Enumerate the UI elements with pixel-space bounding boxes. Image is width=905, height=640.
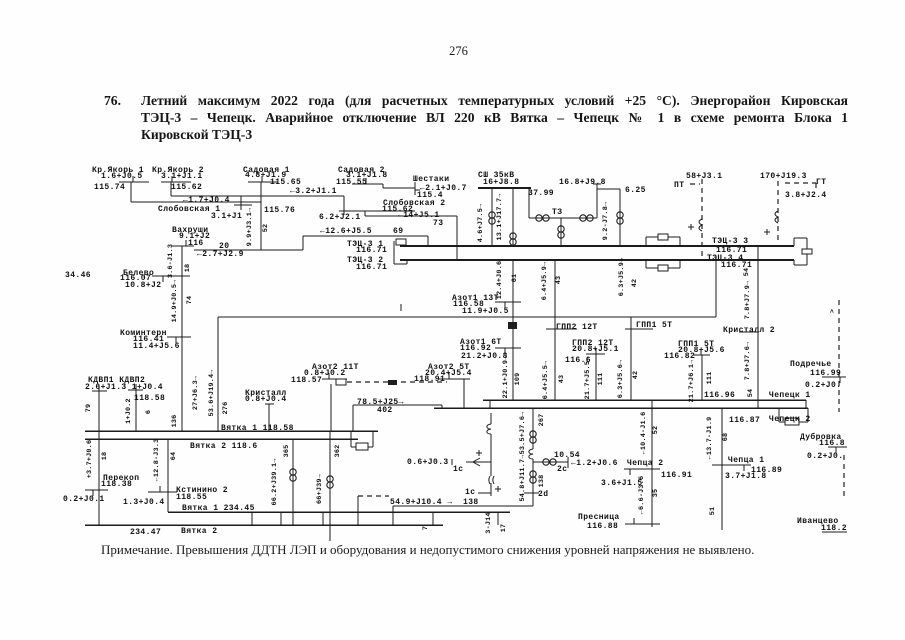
node tick <box>400 304 402 311</box>
wire <box>240 196 242 205</box>
node Коминтерн bar <box>167 336 191 338</box>
transformer <box>290 469 296 481</box>
svg-text:116.87: 116.87 <box>729 416 760 425</box>
svg-text:43: 43 <box>555 276 563 285</box>
svg-text:0.2+J0.: 0.2+J0. <box>805 381 841 390</box>
svg-text:←10.4-J1.6: ←10.4-J1.6 <box>640 412 648 455</box>
paragraph 76 heading <box>104 92 848 143</box>
svg-text:116.71: 116.71 <box>356 263 387 272</box>
wire <box>489 400 491 408</box>
node 1c tick <box>478 492 491 494</box>
node ГПП1-5Т tick <box>625 328 653 330</box>
node Перекоп bar <box>85 489 108 491</box>
svg-text:53.6+J19.4→: 53.6+J19.4→ <box>208 369 216 417</box>
wire <box>528 188 530 218</box>
wire <box>597 188 620 190</box>
node КДВП2 bar <box>128 389 143 391</box>
generator ПТ winding symbol <box>699 219 702 231</box>
svg-text:Вятка 1 118.58: Вятка 1 118.58 <box>221 424 294 433</box>
svg-text:7: 7 <box>422 526 430 530</box>
node Перекоп arrow <box>92 490 94 496</box>
bus coupler jump bottom <box>679 260 681 268</box>
svg-text:66+J39→: 66+J39→ <box>316 473 324 504</box>
generator ГТ dashed lead <box>777 181 779 244</box>
transformer <box>543 459 556 465</box>
svg-text:6.2+J2.1: 6.2+J2.1 <box>319 213 361 222</box>
node ГПП2-12Т arrow <box>595 348 597 354</box>
svg-text:111: 111 <box>597 373 605 386</box>
wire <box>463 379 465 408</box>
wire <box>130 182 132 202</box>
breaker Вятка loop <box>350 431 352 447</box>
wire <box>268 404 270 431</box>
bus left end-cap <box>404 244 406 246</box>
svg-text:0.2+J0.: 0.2+J0. <box>807 452 843 461</box>
wire <box>251 512 253 525</box>
svg-text:3-J14: 3-J14 <box>485 512 493 533</box>
svg-text:362: 362 <box>334 445 342 458</box>
wire <box>432 512 434 525</box>
svg-text:14.9+J0.5→: 14.9+J0.5→ <box>171 279 179 323</box>
wire <box>560 218 562 246</box>
node Азот2-11Т arrow <box>328 373 330 379</box>
svg-text:138: 138 <box>538 475 546 488</box>
node Пресница bar <box>625 523 660 525</box>
svg-text:118.58: 118.58 <box>134 394 165 403</box>
svg-text:←1.2+J0.6: ←1.2+J0.6 <box>571 459 618 468</box>
node Кристалл-2 bar <box>739 331 759 333</box>
svg-text:116.96: 116.96 <box>704 391 735 400</box>
node Белево bar <box>152 275 190 277</box>
wire trunk <box>181 246 183 431</box>
svg-text:402: 402 <box>377 406 393 415</box>
svg-text:66.2+J39.1→: 66.2+J39.1→ <box>271 458 279 506</box>
branch 1.2+J0.6 <box>533 461 568 463</box>
svg-text:34.46: 34.46 <box>65 271 91 280</box>
svg-text:←13.7-J1.9: ←13.7-J1.9 <box>706 417 714 460</box>
wire <box>98 391 100 525</box>
svg-text:116.71: 116.71 <box>356 246 387 255</box>
svg-text:118.91: 118.91 <box>414 375 445 384</box>
svg-text:Кристалл 2: Кристалл 2 <box>723 326 775 335</box>
node Азот2-5Т bar <box>439 378 470 380</box>
node ГПП1-5Т arrow <box>700 349 702 355</box>
svg-text:42: 42 <box>631 279 639 288</box>
svg-text:35: 35 <box>652 489 660 498</box>
bus left end-cap <box>406 259 408 264</box>
svg-text:9.2-J7.8→: 9.2-J7.8→ <box>602 201 610 240</box>
breaker Чепецк-2 loop <box>779 421 785 423</box>
node ГПП1-5Т bar <box>693 354 710 356</box>
node Кр.Якорь-1 bar <box>119 181 149 183</box>
wire <box>383 187 415 189</box>
svg-text:0.8+J0.4: 0.8+J0.4 <box>245 395 287 404</box>
wire <box>329 431 331 541</box>
svg-text:365: 365 <box>283 445 291 458</box>
bus 110kV Чепецк-1 <box>483 399 806 401</box>
svg-text:116.91: 116.91 <box>661 471 692 480</box>
svg-text:21.2+J0.8: 21.2+J0.8 <box>461 352 508 361</box>
svg-text:118.57: 118.57 <box>291 376 322 385</box>
node Слобовская-1 arrow <box>240 205 242 210</box>
svg-text:276: 276 <box>222 402 230 415</box>
node Кристалл arrow <box>265 403 274 405</box>
wire <box>343 196 345 211</box>
breaker coupler bottom <box>658 265 668 271</box>
svg-text:18: 18 <box>101 452 109 461</box>
bus 110kV Чепецк-2 <box>434 407 808 409</box>
wire <box>131 201 261 203</box>
bus Вятка 220kV <box>168 511 510 513</box>
bus left end-cap <box>393 241 395 264</box>
bus left end-cap <box>394 263 407 265</box>
wire <box>512 188 514 246</box>
breaker Вятка-2 <box>356 443 368 450</box>
svg-text:9.9+J3.1→: 9.9+J3.1→ <box>246 207 254 246</box>
node Кстинино bar <box>148 491 177 493</box>
svg-text:3.1+J1.1: 3.1+J1.1 <box>161 172 203 181</box>
svg-text:22.1+J0.9→: 22.1+J0.9→ <box>502 355 510 399</box>
wire <box>596 184 598 218</box>
svg-text:4.6+J7.5→: 4.6+J7.5→ <box>477 203 485 242</box>
svg-text:118.55: 118.55 <box>176 493 207 502</box>
svg-text:ТЗ: ТЗ <box>552 208 562 217</box>
node tick <box>593 183 601 185</box>
node Азот2-5Т arrow <box>448 373 450 379</box>
svg-text:6.3+J5.9→: 6.3+J5.9→ <box>618 257 626 296</box>
bus Вятка-1 110kV <box>85 430 378 432</box>
node Слобовская-1 bar <box>234 204 252 206</box>
node Коминтерн arrow <box>175 337 177 343</box>
svg-text:3.6-J1.3: 3.6-J1.3 <box>167 244 175 278</box>
breaker coupler top <box>658 234 668 240</box>
svg-text:54.9+J10.4 →: 54.9+J10.4 → <box>390 498 452 507</box>
node ГПП2-12Т tick <box>546 328 577 330</box>
node Кр.Якорь-2 bar <box>161 181 191 183</box>
plant boundary left <box>217 317 219 431</box>
wire <box>167 439 169 512</box>
wire <box>715 260 717 317</box>
node 2d bar <box>524 492 539 494</box>
svg-text:16.8+J9.8: 16.8+J9.8 <box>559 178 606 187</box>
svg-text:←1.7+J0.4: ←1.7+J0.4 <box>183 196 230 205</box>
node Чепца-2 arrow <box>629 469 631 475</box>
svg-text:0.2+J0.1: 0.2+J0.1 <box>63 495 105 504</box>
svg-text:>: > <box>829 309 837 313</box>
svg-text:3.6+J1.5: 3.6+J1.5 <box>601 479 643 488</box>
svg-text:Вятка 2 118.6: Вятка 2 118.6 <box>190 442 258 451</box>
svg-text:115.74: 115.74 <box>94 183 125 192</box>
wire <box>619 189 621 246</box>
node КДВП1 arrow <box>98 385 100 391</box>
wire <box>135 390 137 431</box>
dashed lead Подречье <box>838 300 840 412</box>
node Азот1-13Т bar <box>495 301 521 303</box>
feeder Азот1 <box>512 260 514 400</box>
bus coupler jump top <box>646 236 658 238</box>
svg-text:10.8+J2: 10.8+J2 <box>125 281 161 290</box>
feeder Кристалл-2 <box>757 246 759 408</box>
feeder ГПП1-5Т <box>701 355 703 400</box>
wire <box>491 188 493 246</box>
wire <box>364 211 366 216</box>
footnote <box>101 542 754 558</box>
bus right end-cap <box>793 238 795 246</box>
svg-text:116.8: 116.8 <box>819 439 845 448</box>
node Вахруши bar <box>172 245 194 247</box>
svg-text:138: 138 <box>463 498 479 507</box>
svg-text:42: 42 <box>632 371 640 380</box>
disconnector 1c symbols <box>473 424 494 484</box>
svg-text:170+J19.3: 170+J19.3 <box>760 172 807 181</box>
node Азот1-6Т bar <box>495 347 521 349</box>
wire <box>365 215 457 217</box>
breaker bus left end <box>396 239 406 245</box>
node Садовая-2 bar <box>352 183 380 185</box>
svg-text:136: 136 <box>171 415 179 428</box>
breaker Азот2-11Т <box>336 379 346 385</box>
svg-text:17: 17 <box>500 524 508 533</box>
transformer <box>536 215 549 221</box>
svg-text:←12.8-J3.3: ←12.8-J3.3 <box>153 439 161 482</box>
generator squiggle on feeder 267 <box>529 449 533 459</box>
svg-text:2d: 2d <box>538 490 548 499</box>
svg-text:13.1+J17.7→: 13.1+J17.7→ <box>496 193 504 241</box>
svg-text:6.4+J5.9→: 6.4+J5.9→ <box>541 261 549 300</box>
svg-text:21.7+J6.1→: 21.7+J6.1→ <box>688 359 696 403</box>
node Азот1-13Т arrow <box>504 302 506 308</box>
bus coupler jump bottom <box>646 267 658 269</box>
generator ГТ dashed link <box>815 183 817 188</box>
bus coupler jump top <box>679 237 681 246</box>
node КДВП2 arrow <box>135 384 137 390</box>
svg-text:2c: 2c <box>557 465 567 474</box>
svg-text:54: 54 <box>747 389 755 398</box>
svg-text:←3.2+J1.1: ←3.2+J1.1 <box>290 187 337 196</box>
wire <box>357 496 359 525</box>
bus lower 220kV <box>85 524 443 526</box>
feeder ГПП2 <box>554 260 556 400</box>
bus right end-cap <box>806 254 808 265</box>
bus coupler jump top <box>645 237 647 246</box>
node Садовая-1 arrow <box>261 176 263 182</box>
svg-text:11.4+J5.6: 11.4+J5.6 <box>133 342 180 351</box>
disconnector column <box>490 413 492 424</box>
wire <box>382 184 384 188</box>
bus coupler jump bottom <box>668 267 680 269</box>
svg-text:115.76: 115.76 <box>264 206 295 215</box>
wire <box>427 236 429 246</box>
svg-text:6.4+J5.5→: 6.4+J5.5→ <box>542 360 550 399</box>
generator ГТ winding symbol <box>775 211 778 223</box>
svg-text:ГПП1 5Т: ГПП1 5Т <box>636 321 672 330</box>
transformer <box>617 212 623 224</box>
svg-text:109: 109 <box>514 373 522 386</box>
wire <box>529 217 597 219</box>
svg-text:ГТ: ГТ <box>816 178 826 187</box>
svg-text:Чепца 2: Чепца 2 <box>627 459 663 468</box>
wire <box>171 195 344 197</box>
branch 0.6+J0.3 <box>466 461 491 463</box>
svg-text:1.6+J0.5: 1.6+J0.5 <box>101 172 143 181</box>
node Пресница arrow <box>633 518 635 524</box>
wire <box>292 439 294 525</box>
svg-text:0.6+J0.3: 0.6+J0.3 <box>407 458 449 467</box>
dashed line 54.9 <box>358 495 389 497</box>
svg-text:115.65: 115.65 <box>270 178 301 187</box>
svg-text:58+J3.1: 58+J3.1 <box>686 172 722 181</box>
node Слобовская-2 bar <box>339 210 415 212</box>
wire <box>497 512 499 525</box>
bus 110kV bottom <box>400 259 794 261</box>
node Шестаки bar <box>414 182 416 195</box>
svg-text:1c: 1c <box>453 465 463 474</box>
svg-text:116.88: 116.88 <box>587 522 618 531</box>
wire <box>352 405 354 431</box>
wire <box>532 459 534 506</box>
generator ПТ dashed lead <box>701 179 703 260</box>
junction dashed tie <box>388 380 397 385</box>
node Шестаки arrow <box>415 189 420 191</box>
node Садовая-2 arrow <box>365 178 367 184</box>
transformer <box>530 431 536 443</box>
node Чепца-1 bar <box>712 464 751 466</box>
wire <box>260 182 262 250</box>
svg-text:3.7+J1.8: 3.7+J1.8 <box>725 472 767 481</box>
svg-text:116.99: 116.99 <box>810 369 841 378</box>
node Белево arrow <box>162 276 164 282</box>
svg-text:11.9+J0.5: 11.9+J0.5 <box>462 307 509 316</box>
wire <box>392 506 394 525</box>
svg-text:115.62: 115.62 <box>171 183 202 192</box>
node Кр.Якорь-1 arrow <box>132 176 134 182</box>
svg-text:111: 111 <box>706 372 714 385</box>
breaker Вятка loop <box>372 431 374 447</box>
svg-text:43: 43 <box>558 375 566 384</box>
svg-text:6: 6 <box>145 410 153 414</box>
node Азот2-11Т bar <box>322 378 347 380</box>
svg-text:1c: 1c <box>465 488 475 497</box>
svg-text:16+J8.8: 16+J8.8 <box>483 178 519 187</box>
node Слобовская-2 arrow <box>343 211 345 215</box>
svg-text:ТЭЦ-3 3: ТЭЦ-3 3 <box>712 237 748 246</box>
feeder Чепца <box>651 400 653 527</box>
svg-text:3.1+J1: 3.1+J1 <box>211 212 242 221</box>
svg-text:6.25: 6.25 <box>625 186 646 195</box>
wire <box>532 408 534 449</box>
wire <box>302 236 304 250</box>
node plus mark <box>688 224 770 235</box>
svg-text:1+J0.2: 1+J0.2 <box>125 398 133 424</box>
bus 35kV <box>478 187 531 189</box>
svg-text:267: 267 <box>538 414 546 427</box>
svg-text:61: 61 <box>511 274 519 283</box>
bus Вятка-2 110kV <box>85 438 358 440</box>
svg-text:51: 51 <box>709 507 717 516</box>
disconnector column <box>490 434 492 476</box>
transformer <box>580 215 593 221</box>
svg-text:←6.6-J3.6: ←6.6-J3.6 <box>638 476 646 515</box>
node КДВП1 bar <box>92 390 107 392</box>
node Подречье bar <box>822 376 846 378</box>
transformer <box>558 226 564 238</box>
bus right end-cap <box>793 260 795 265</box>
node Иванцево underline <box>822 531 847 533</box>
bus right end-cap <box>794 237 807 239</box>
svg-text:Чепецк 2: Чепецк 2 <box>769 415 811 424</box>
feeder Чепца-1 <box>721 408 723 530</box>
bus 110kV top <box>400 245 794 247</box>
transformer <box>327 476 333 488</box>
svg-text:54.8+J11.7→: 54.8+J11.7→ <box>519 454 527 502</box>
feeder ГПП1 <box>630 317 632 400</box>
wire <box>805 400 807 408</box>
breaker Чепецк-2 loop <box>799 421 808 423</box>
feeder ГПП2-12Т <box>595 354 597 400</box>
svg-text:Чепца 1: Чепца 1 <box>728 456 764 465</box>
breaker Чепецк-2 loop <box>778 408 780 422</box>
node Садовая-1 bar <box>248 181 278 183</box>
svg-text:1.3+J0.4: 1.3+J0.4 <box>123 498 165 507</box>
generator ГТ dashed link <box>785 182 816 184</box>
feeder Азот2-11Т <box>330 384 332 431</box>
line 402 <box>353 404 442 406</box>
bus coupler jump bottom <box>645 260 647 268</box>
svg-text:7.8+J7.9→: 7.8+J7.9→ <box>744 280 752 319</box>
node tick <box>451 459 453 465</box>
svg-text:116: 116 <box>188 239 204 248</box>
svg-text:ГПП2 12Т: ГПП2 12Т <box>556 323 598 332</box>
node Чепца-1 arrow <box>743 465 745 471</box>
node plus mark 1c <box>476 450 501 492</box>
wire <box>280 512 282 525</box>
svg-text:6.3+J5.6→: 6.3+J5.6→ <box>617 359 625 398</box>
svg-text:3.8+J2.4: 3.8+J2.4 <box>785 191 827 200</box>
node Кстинино arrow <box>159 486 161 492</box>
svg-text:Шестаки: Шестаки <box>413 175 449 184</box>
svg-text:73: 73 <box>433 219 443 228</box>
breaker bus right end <box>802 249 812 254</box>
svg-text:Подречье: Подречье <box>790 360 832 369</box>
svg-text:52: 52 <box>652 426 660 435</box>
svg-text:64: 64 <box>170 452 178 461</box>
svg-text:ПТ: ПТ <box>674 181 684 190</box>
svg-text:53.5+J7.6→: 53.5+J7.6→ <box>519 411 527 455</box>
svg-text:234.47: 234.47 <box>130 528 161 537</box>
wire <box>441 405 443 408</box>
svg-text:115.55: 115.55 <box>336 178 367 187</box>
transformer <box>530 471 536 483</box>
bus coupler jump top <box>668 236 680 238</box>
svg-text:54: 54 <box>743 268 751 277</box>
svg-text:27+J6.3→: 27+J6.3→ <box>192 375 200 410</box>
node Дубровка arrow <box>835 447 837 453</box>
svg-text:←2.7+J2.9: ←2.7+J2.9 <box>197 250 244 259</box>
bus right end-cap <box>794 264 807 266</box>
junction Азот1 <box>508 322 517 329</box>
node ГПП2-12Т bar <box>586 353 605 355</box>
svg-text:Вятка 2: Вятка 2 <box>181 527 217 536</box>
disconnector column <box>490 483 492 496</box>
svg-text:12.4+J0.6: 12.4+J0.6 <box>496 261 504 300</box>
svg-text:Пресница: Пресница <box>578 513 620 522</box>
breaker Вятка loop <box>351 446 356 448</box>
svg-text:52: 52 <box>262 224 270 233</box>
node Дубровка bar <box>828 446 847 448</box>
svg-text:+3.7+J0.6: +3.7+J0.6 <box>86 440 94 479</box>
svg-text:69: 69 <box>393 227 403 236</box>
dashed tie Азот2 <box>347 381 447 383</box>
